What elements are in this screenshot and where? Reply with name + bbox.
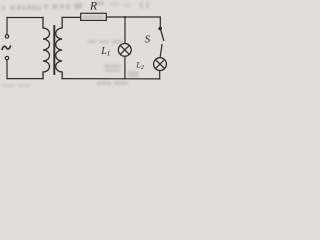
switch S blade (open, slanting down-right)	[161, 29, 164, 40]
lamp L2 cross	[156, 60, 165, 69]
resistor R body	[81, 13, 107, 20]
wire: bottom of load loop (62,78.6)-(159.7,78.9)	[62, 78, 160, 80]
wire: source loop top (7,17.5)-(43,17.5)	[7, 17, 43, 19]
transformer core	[53, 26, 55, 74]
svg-text:R: R	[89, 0, 97, 12]
transformer secondary coil S1 (4 bumps, bulge left)	[56, 18, 63, 79]
switch S upper contact dot	[158, 27, 162, 31]
AC source tilde symbol	[2, 46, 10, 49]
lamp L2 circle	[154, 58, 167, 71]
wire: L1 branch lower (124.9,56.3)-(124.9,78.7)	[124, 56, 126, 78]
wire: source left lower (7,59.8)-(7,78.6)	[6, 60, 8, 79]
svg-text:S: S	[145, 34, 151, 46]
junction node of L1 branch on top wire	[124, 16, 126, 18]
wire: lamp L2 to bottom-right corner (159.7,70.5)-(159.7,79)	[159, 71, 161, 79]
wire: resistor to top-right corner (106,17)-(160,16.9)	[106, 16, 160, 18]
wire: source loop bottom (7,78.6)-(43,78.6)	[7, 78, 43, 80]
terminal circle upper of AC source	[5, 35, 8, 38]
bleed-through smudge mid right	[3, 2, 139, 88]
bleed-through smudge band top	[2, 1, 149, 10]
wire: switch lower lead to lamp L2 (162,44.6)-(160,57.7)	[160, 45, 162, 58]
lamp L1 circle	[118, 44, 131, 57]
terminal circle lower of AC source	[5, 56, 8, 59]
wire: secondary top to resistor (62,17.5)-(81,17)	[62, 16, 81, 18]
paper background	[0, 0, 169, 88]
resistor interior scan smudge	[83, 15, 105, 19]
lamp L1 cross	[120, 46, 129, 55]
wire: source left upper (7,17.5)-(7,34.6)	[6, 18, 8, 35]
wire: L1 branch upper (125,17)-(125,43.5)	[124, 17, 126, 44]
wire: right edge top, corner to switch contact (160.3,16.9)-(160.3,27.2)	[159, 17, 161, 27]
transformer primary coil P1 (4 bumps, bulge right)	[43, 18, 50, 79]
